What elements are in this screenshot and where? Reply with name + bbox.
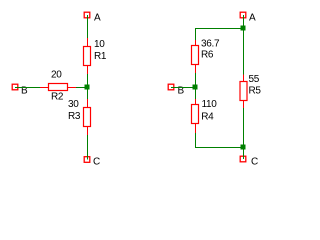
resistor R4: [192, 99, 218, 134]
junction C right: [241, 145, 246, 150]
resistor R6: [192, 39, 221, 74]
svg-text:30: 30: [68, 99, 79, 110]
junction A right: [241, 26, 246, 31]
junction B right: [193, 85, 198, 90]
wire top rail: [195, 28, 244, 30]
resistor R3: [68, 99, 91, 135]
wire R4 to corner: [195, 133, 197, 148]
node C right: [240, 156, 258, 167]
svg-text:10: 10: [94, 39, 105, 50]
node B: [12, 84, 28, 96]
svg-text:C: C: [251, 157, 258, 168]
svg-text:A: A: [94, 13, 101, 24]
svg-text:110: 110: [202, 99, 218, 110]
wire junction C to node C: [243, 150, 245, 160]
wire R6 to junction B: [195, 73, 197, 85]
wire junction B to R4: [195, 90, 197, 100]
wire junction to R3: [87, 90, 89, 100]
wire A to R1: [87, 15, 89, 38]
wire junction A to R5: [243, 31, 245, 75]
svg-text:C: C: [93, 157, 100, 168]
svg-text:36.7: 36.7: [201, 39, 220, 50]
wire R1 to junction: [87, 74, 89, 85]
wire R3 to C: [87, 135, 89, 160]
wire A right to junction: [243, 15, 245, 26]
svg-text:R3: R3: [68, 111, 81, 122]
node A right: [240, 12, 256, 23]
svg-text:55: 55: [249, 74, 260, 85]
wire R2 to junction: [76, 87, 85, 89]
node A: [84, 12, 101, 23]
wire B to R2: [15, 87, 40, 89]
resistor R1: [84, 38, 107, 74]
wire R5 to junction C: [243, 108, 245, 145]
svg-text:R6: R6: [201, 50, 214, 61]
svg-text:R4: R4: [201, 111, 214, 122]
svg-text:R1: R1: [94, 51, 107, 62]
wire bottom rail: [195, 147, 241, 149]
node C: [84, 157, 100, 168]
svg-text:20: 20: [51, 70, 62, 81]
junction left: [85, 85, 90, 90]
resistor R2: [40, 70, 76, 103]
resistor R5: [240, 74, 261, 108]
svg-text:R2: R2: [51, 92, 64, 103]
svg-text:R5: R5: [249, 85, 262, 96]
wire corner to R6: [195, 28, 197, 40]
svg-text:A: A: [249, 13, 256, 24]
wire B right to junction: [171, 87, 193, 89]
node B right: [168, 84, 184, 96]
